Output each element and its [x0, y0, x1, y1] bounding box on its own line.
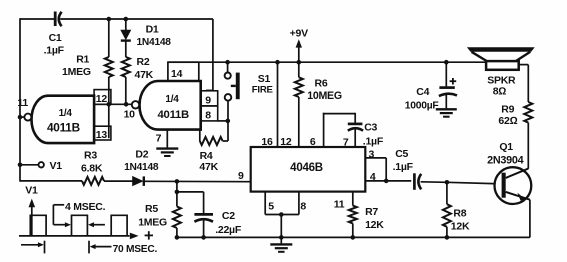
node junction R7 ground rail — [351, 235, 356, 240]
wire pin12 to pin13 — [108, 104, 110, 138]
node V1 terminal — [20, 164, 39, 166]
pin 4 wire — [365, 180, 411, 182]
ground gate2 pin7 — [156, 147, 178, 149]
resistor R1 — [105, 57, 113, 77]
wire C4 upper — [445, 62, 447, 86]
svg-text:C4: C4 — [416, 86, 429, 98]
svg-text:1MEG: 1MEG — [138, 216, 167, 228]
svg-text:8Ω: 8Ω — [493, 86, 507, 98]
wire C2 lower — [203, 220, 205, 237]
svg-text:R6: R6 — [315, 78, 328, 90]
resistor R9 — [524, 102, 532, 123]
wire R8 lower — [446, 227, 448, 238]
svg-text:9: 9 — [205, 94, 211, 106]
node junction pin8 S1 — [226, 119, 231, 124]
wire left rail corner to R3 — [20, 180, 82, 182]
transistor Q1 emitter — [506, 192, 530, 200]
node junction R1 pin12 — [107, 102, 112, 107]
svg-text:5: 5 — [268, 200, 274, 212]
svg-text:47K: 47K — [135, 69, 154, 81]
op-amp U2 4046B box — [251, 147, 366, 192]
waveform plus — [145, 234, 153, 236]
svg-text:R9: R9 — [501, 103, 514, 115]
svg-text:6: 6 — [310, 136, 316, 148]
svg-text:R7: R7 — [365, 206, 378, 218]
svg-text:13: 13 — [96, 129, 108, 141]
wire R4 to gate corner — [199, 130, 201, 141]
svg-text:10MEG: 10MEG — [307, 90, 342, 102]
transistor Q1 body — [495, 167, 532, 204]
waveform pulse 2 — [72, 215, 88, 236]
svg-text:9: 9 — [238, 170, 244, 182]
node junction R1 top — [107, 17, 112, 22]
svg-text:R2: R2 — [137, 56, 150, 68]
pin 10 bubble — [132, 101, 139, 108]
svg-text:.1µF: .1µF — [393, 161, 414, 173]
wire D1 upper — [125, 19, 127, 30]
svg-text:SPKR: SPKR — [487, 74, 516, 86]
wire tie to ground rail — [280, 215, 282, 238]
wire R3 to D2 — [104, 180, 133, 182]
waveform baseline — [19, 235, 130, 237]
node junction ground rail center — [279, 235, 284, 240]
svg-text:.22µF: .22µF — [215, 224, 242, 236]
wire pin 8 to S1 — [218, 120, 228, 122]
node junction V1 — [18, 163, 23, 168]
transistor Q1 base bar — [502, 173, 506, 198]
resistor R8 — [443, 204, 451, 227]
svg-text:7: 7 — [156, 133, 162, 145]
svg-text:14: 14 — [171, 68, 183, 80]
node junction +9V rail — [297, 60, 302, 65]
pin 11 wire U2 — [352, 192, 354, 206]
svg-text:4011B: 4011B — [158, 109, 190, 121]
resistor R4 — [200, 137, 223, 145]
resistor R6 — [295, 77, 303, 97]
op-amp U1b gate 4011B body — [140, 81, 201, 130]
svg-text:V1: V1 — [25, 185, 38, 197]
svg-text:4011B: 4011B — [47, 120, 80, 134]
svg-text:1N4148: 1N4148 — [124, 162, 159, 173]
wire R5 mid — [176, 192, 178, 207]
svg-text:V1: V1 — [50, 160, 63, 172]
node junction R5 ground rail — [175, 235, 180, 240]
node junction pin5 pin8 — [279, 212, 284, 217]
wire +9V rail — [168, 61, 486, 63]
waveform pulse 3 — [111, 215, 127, 236]
wire R5 branch upper — [176, 181, 178, 192]
wire emitter to ground rail — [529, 200, 531, 238]
wire R5 lower — [176, 228, 178, 237]
wire R9 to collector — [527, 123, 529, 169]
svg-text:6.8K: 6.8K — [81, 163, 103, 175]
op-amp U1a gate 4011B body — [31, 96, 94, 143]
resistor R2 — [122, 57, 130, 77]
pin 3 wire — [365, 157, 386, 159]
node junction S1 rail — [225, 60, 230, 65]
svg-text:C3: C3 — [364, 121, 377, 133]
pin 13 box — [94, 126, 111, 140]
svg-text:7: 7 — [343, 137, 349, 149]
wire C2 branch top — [177, 191, 204, 193]
svg-text:11: 11 — [17, 97, 28, 109]
pin 11 bubble — [24, 114, 31, 121]
node junction D1 top — [124, 17, 129, 22]
node junction pin16 rail — [275, 60, 280, 65]
svg-text:1MEG: 1MEG — [62, 66, 91, 78]
pin 9 box — [201, 91, 218, 106]
svg-text:R3: R3 — [84, 149, 97, 161]
switch S1 button — [236, 73, 240, 100]
svg-text:1N4148: 1N4148 — [137, 37, 172, 48]
node junction C4 rail — [444, 60, 449, 65]
resistor R3 — [82, 177, 104, 185]
node junction pin3 pin4 — [384, 179, 389, 184]
svg-text:2N3904: 2N3904 — [487, 155, 524, 167]
node junction pin11 rail — [18, 115, 23, 120]
svg-text:S1: S1 — [258, 73, 271, 85]
pin 5 wire — [264, 192, 266, 215]
wire R6 upper — [298, 62, 300, 77]
svg-text:12: 12 — [280, 136, 292, 148]
diode D1 — [120, 30, 131, 41]
svg-text:C5: C5 — [395, 148, 408, 160]
annotation 70 msec left tick — [44, 241, 46, 254]
wire S1 upper — [227, 62, 229, 72]
waveform V1 axis arrow — [29, 199, 36, 208]
wire C1 loop vertical — [212, 19, 214, 91]
pin 8 wire U2 — [298, 192, 300, 215]
svg-text:1000µF: 1000µF — [405, 100, 439, 111]
wire ground stub — [280, 237, 282, 243]
wire D2 to 4046 pin 9 — [144, 180, 251, 182]
wire R4 bend — [223, 140, 228, 142]
resistor R5 — [173, 207, 181, 228]
wire ground rail — [177, 236, 530, 238]
wire pin5 pin8 tie — [265, 214, 299, 216]
svg-text:R5: R5 — [145, 203, 158, 215]
ground main — [270, 243, 292, 245]
svg-text:12K: 12K — [365, 219, 384, 231]
svg-text:R8: R8 — [453, 207, 466, 219]
wire top feedback rail — [20, 18, 55, 20]
node junction R8 ground rail — [445, 235, 450, 240]
wire C5 to base — [421, 181, 447, 184]
ground C4 — [436, 108, 457, 110]
wire R2 lower — [125, 77, 127, 104]
wire R1 lower — [108, 77, 110, 104]
svg-text:FIRE: FIRE — [252, 85, 274, 96]
svg-text:12K: 12K — [451, 221, 470, 233]
node junction R5 tap — [175, 179, 180, 184]
svg-text:10: 10 — [124, 108, 136, 120]
svg-text:+9V: +9V — [290, 28, 308, 40]
wire R8 upper — [446, 182, 448, 204]
pin 12 box — [94, 90, 111, 105]
capacitor C3 — [354, 113, 356, 123]
wire R1 upper — [108, 19, 110, 57]
svg-text:4 MSEC.: 4 MSEC. — [65, 201, 106, 213]
wire speaker to R9 — [519, 64, 529, 66]
svg-text:11: 11 — [334, 199, 345, 211]
wire R6 lower pin 12 — [298, 97, 300, 147]
node junction R5 C2 — [175, 190, 180, 195]
node junction R2 pin10 — [124, 102, 129, 107]
svg-text:C2: C2 — [222, 210, 235, 222]
power +9V arrow — [296, 39, 302, 47]
switch S1 bottom terminal — [225, 94, 232, 101]
capacitor C1 — [54, 12, 57, 27]
svg-text:.1µF: .1µF — [363, 136, 384, 148]
wire D1 to R2 — [125, 41, 127, 57]
svg-text:C1: C1 — [49, 32, 62, 44]
resistor R7 — [349, 206, 357, 224]
wire S1 lower — [227, 101, 229, 141]
wire pin 7 stub — [166, 130, 168, 149]
svg-text:16: 16 — [261, 136, 273, 148]
wire pin12 to pin10 net — [94, 103, 132, 105]
svg-text:D2: D2 — [135, 148, 148, 160]
wire R7 lower — [352, 223, 354, 237]
svg-text:47K: 47K — [199, 161, 218, 173]
speaker SPKR — [467, 47, 535, 52]
svg-text:8: 8 — [300, 200, 306, 212]
waveform pulse 1 — [30, 215, 46, 236]
pin 6 wire — [323, 113, 325, 147]
svg-text:4046B: 4046B — [290, 162, 323, 174]
node junction R8 tap — [445, 180, 450, 185]
capacitor C5 — [413, 173, 416, 190]
wire pin 11 to rail — [20, 116, 24, 118]
svg-text:D1: D1 — [146, 24, 159, 36]
wire left rail — [19, 18, 21, 181]
svg-text:R1: R1 — [76, 53, 89, 65]
svg-text:1/4: 1/4 — [59, 108, 73, 119]
switch S1 top terminal — [225, 73, 231, 79]
svg-text:4: 4 — [370, 171, 376, 183]
svg-text:Q1: Q1 — [499, 141, 513, 153]
transistor Q1 collector — [506, 169, 529, 178]
svg-text:62Ω: 62Ω — [498, 115, 517, 127]
capacitor C4 — [439, 86, 454, 89]
svg-text:8: 8 — [205, 110, 211, 122]
svg-text:70 MSEC.: 70 MSEC. — [113, 244, 158, 255]
wire C2 upper — [203, 192, 205, 213]
pin 16 wire — [277, 62, 279, 147]
capacitor C2 — [194, 213, 213, 216]
annotation 70 msec right tick — [88, 241, 90, 254]
svg-text:.1µF: .1µF — [44, 45, 65, 57]
svg-text:12: 12 — [96, 93, 108, 105]
wire C3 loop top — [323, 113, 355, 115]
diode D2 — [132, 176, 143, 186]
annotation 4 msec pointer — [53, 204, 64, 206]
annotation 4 msec right arrow — [88, 222, 94, 227]
node junction C2 ground rail — [201, 235, 206, 240]
pin 14 box — [168, 62, 199, 81]
pin 8 box — [201, 106, 218, 121]
svg-text:1/4: 1/4 — [165, 94, 179, 105]
